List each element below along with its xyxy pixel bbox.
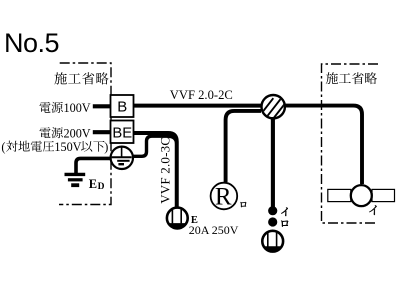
wire: junction right to fluorescent [286,106,363,184]
svg-text:VVF 2.0-2C: VVF 2.0-2C [170,88,233,102]
label i (switch) [281,208,287,216]
breaker BE [111,121,134,144]
label sekou-shouryaku (left) [54,72,67,84]
outlet E 20A250V [167,208,188,229]
svg-text:D: D [98,182,105,192]
wire: junction down to switches [271,117,275,207]
svg-text:): ) [104,140,108,154]
wire: main 100V line B to junction [134,104,262,108]
wire: 100V source stub [93,104,111,108]
svg-text:VVF 2.0-3C: VVF 2.0-3C [157,137,172,204]
label dengen 100V [39,102,50,113]
earth terminal circle under BE [111,147,133,169]
wire: 200V source stub [93,130,111,134]
label dengen 200V [39,127,50,138]
label ro (at R) [240,202,246,207]
svg-text:B: B [117,98,127,115]
wire: earth wire to ground [76,158,111,173]
dashed box right [322,64,379,223]
switch i [268,206,277,215]
label ro (switch) [281,221,288,227]
lamp receptacle R [211,183,238,210]
svg-text:(: ( [1,140,5,154]
wire: earth conductor joining 3C run [133,136,177,156]
svg-text:BE: BE [112,125,132,141]
svg-text:100V: 100V [64,101,91,115]
ground symbol [65,173,86,176]
fluorescent light fixture [328,185,395,206]
wire: BE to outlet (VVF 2.0-3C run) [134,133,177,207]
junction box (hatched circle) [259,95,287,119]
outlet below switches [262,231,283,252]
svg-text:R: R [215,184,232,211]
svg-text:E: E [89,177,97,191]
wire: branch to lamp receptacle R [226,111,261,182]
label i (fluorescent) [369,205,376,215]
svg-text:200V: 200V [64,126,91,140]
label sekou-shouryaku (right) [326,72,338,84]
breaker B [111,95,134,117]
dashed box left (source area) [59,63,111,205]
svg-text:20A 250V: 20A 250V [189,223,239,237]
svg-text:No.5: No.5 [4,28,59,58]
svg-text:150V: 150V [54,140,81,154]
switch ro [268,217,277,226]
